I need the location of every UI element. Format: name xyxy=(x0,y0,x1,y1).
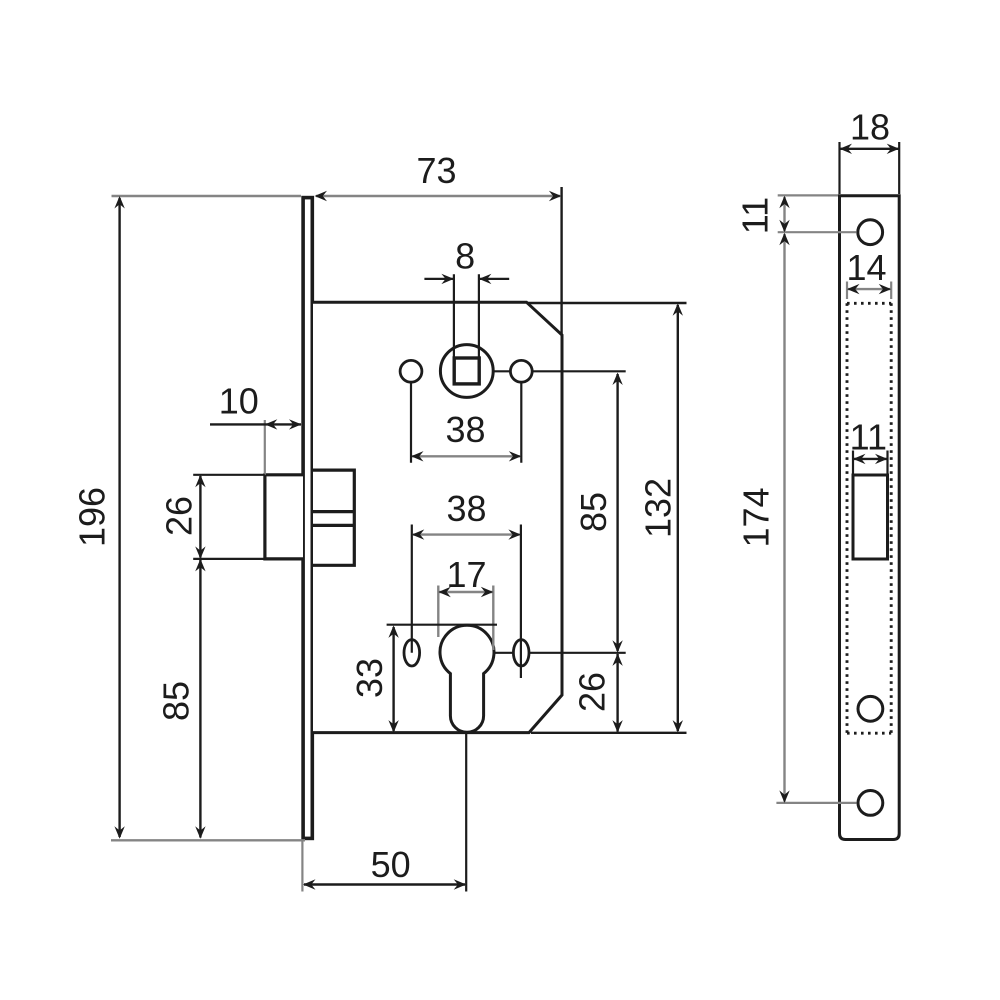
dimension 8 xyxy=(424,236,509,285)
dimension 11 top extension lines xyxy=(778,195,857,232)
dimension 33 extension top xyxy=(387,624,497,626)
dimension 26 left extension bottom xyxy=(193,558,265,560)
dimension 18 xyxy=(840,106,900,154)
svg-text:18: 18 xyxy=(850,106,890,147)
svg-text:17: 17 xyxy=(446,554,486,595)
svg-text:11: 11 xyxy=(850,416,887,457)
oval screw hole right xyxy=(513,640,529,666)
dimension 11 middle xyxy=(850,416,888,464)
dimension 50 extension left xyxy=(301,842,303,892)
dimension 10 xyxy=(210,381,302,430)
fixing hole right xyxy=(510,360,532,382)
svg-text:132: 132 xyxy=(638,478,679,538)
hidden case outline dotted xyxy=(847,303,891,733)
svg-text:196: 196 xyxy=(72,487,113,547)
lock case outline xyxy=(313,302,562,732)
svg-text:11: 11 xyxy=(735,197,776,234)
latch opening xyxy=(853,475,888,559)
centre line right hole to dim 85 xyxy=(532,370,625,372)
dimension 73 xyxy=(315,150,562,201)
dimension 26 right xyxy=(572,653,623,732)
centre line oval to dim 26 xyxy=(529,652,626,654)
dimension 50 extension right xyxy=(465,733,467,891)
dimension 11 top xyxy=(735,196,790,234)
dimension 26 left extension top xyxy=(193,474,265,476)
fixing hole left xyxy=(400,360,422,382)
dimension 50 xyxy=(303,844,466,890)
svg-text:26: 26 xyxy=(159,496,200,536)
svg-text:10: 10 xyxy=(219,381,259,422)
dimension 11 middle extension lines xyxy=(853,451,888,475)
dimension 33 xyxy=(349,625,399,732)
dimension 132 extension bottom xyxy=(531,732,687,734)
faceplate side view xyxy=(303,198,312,839)
dimension 10 extension xyxy=(264,420,266,475)
dimension 26 left xyxy=(159,475,206,559)
dimension 14 xyxy=(846,247,891,295)
dimension 85 right xyxy=(573,373,623,653)
svg-text:38: 38 xyxy=(446,488,486,529)
faceplate front view xyxy=(840,196,900,840)
svg-text:14: 14 xyxy=(846,247,886,288)
svg-text:174: 174 xyxy=(735,487,776,547)
screw hole bottom xyxy=(858,791,883,816)
svg-text:26: 26 xyxy=(572,672,613,712)
dimension 38 lower xyxy=(412,488,521,540)
screw hole middle xyxy=(858,696,883,721)
svg-text:50: 50 xyxy=(371,844,411,885)
dimension 132 extension top xyxy=(527,302,687,304)
spindle follower circle xyxy=(440,345,493,398)
dimension 38 lower extension lines xyxy=(412,525,521,679)
square spindle hole 8mm xyxy=(454,358,479,384)
svg-text:38: 38 xyxy=(445,409,485,450)
latch tail block xyxy=(313,470,354,565)
svg-text:8: 8 xyxy=(455,236,475,277)
dimension 38 upper extension lines xyxy=(411,383,521,463)
dimension 17 extension lines xyxy=(438,586,493,651)
dimension 174 xyxy=(735,233,789,803)
dimension 174 extension bottom xyxy=(776,802,856,804)
dimension 38 upper xyxy=(411,409,521,462)
svg-text:73: 73 xyxy=(416,150,456,191)
screw hole top xyxy=(858,220,883,245)
dimension 196 extension top xyxy=(112,195,302,197)
dimension 14 extension lines xyxy=(847,282,891,300)
svg-text:33: 33 xyxy=(349,658,390,698)
dimension 17 xyxy=(438,554,493,597)
svg-text:85: 85 xyxy=(156,681,197,721)
svg-text:85: 85 xyxy=(573,492,614,532)
euro cylinder hole xyxy=(440,625,494,732)
dimension 196 xyxy=(72,196,125,839)
dimension 8 extension lines xyxy=(454,274,479,357)
latch bolt xyxy=(265,475,303,559)
dimension 132 xyxy=(638,303,684,732)
oval screw hole left xyxy=(404,640,420,666)
dimension 18 extension lines xyxy=(840,142,900,194)
centre line cylinder to oval xyxy=(494,652,513,654)
dimension 73 extension right xyxy=(560,187,562,335)
dimension 85 left xyxy=(156,559,206,839)
dimension 196 extension bottom xyxy=(111,839,305,841)
centre line spindle to right hole xyxy=(493,370,510,372)
